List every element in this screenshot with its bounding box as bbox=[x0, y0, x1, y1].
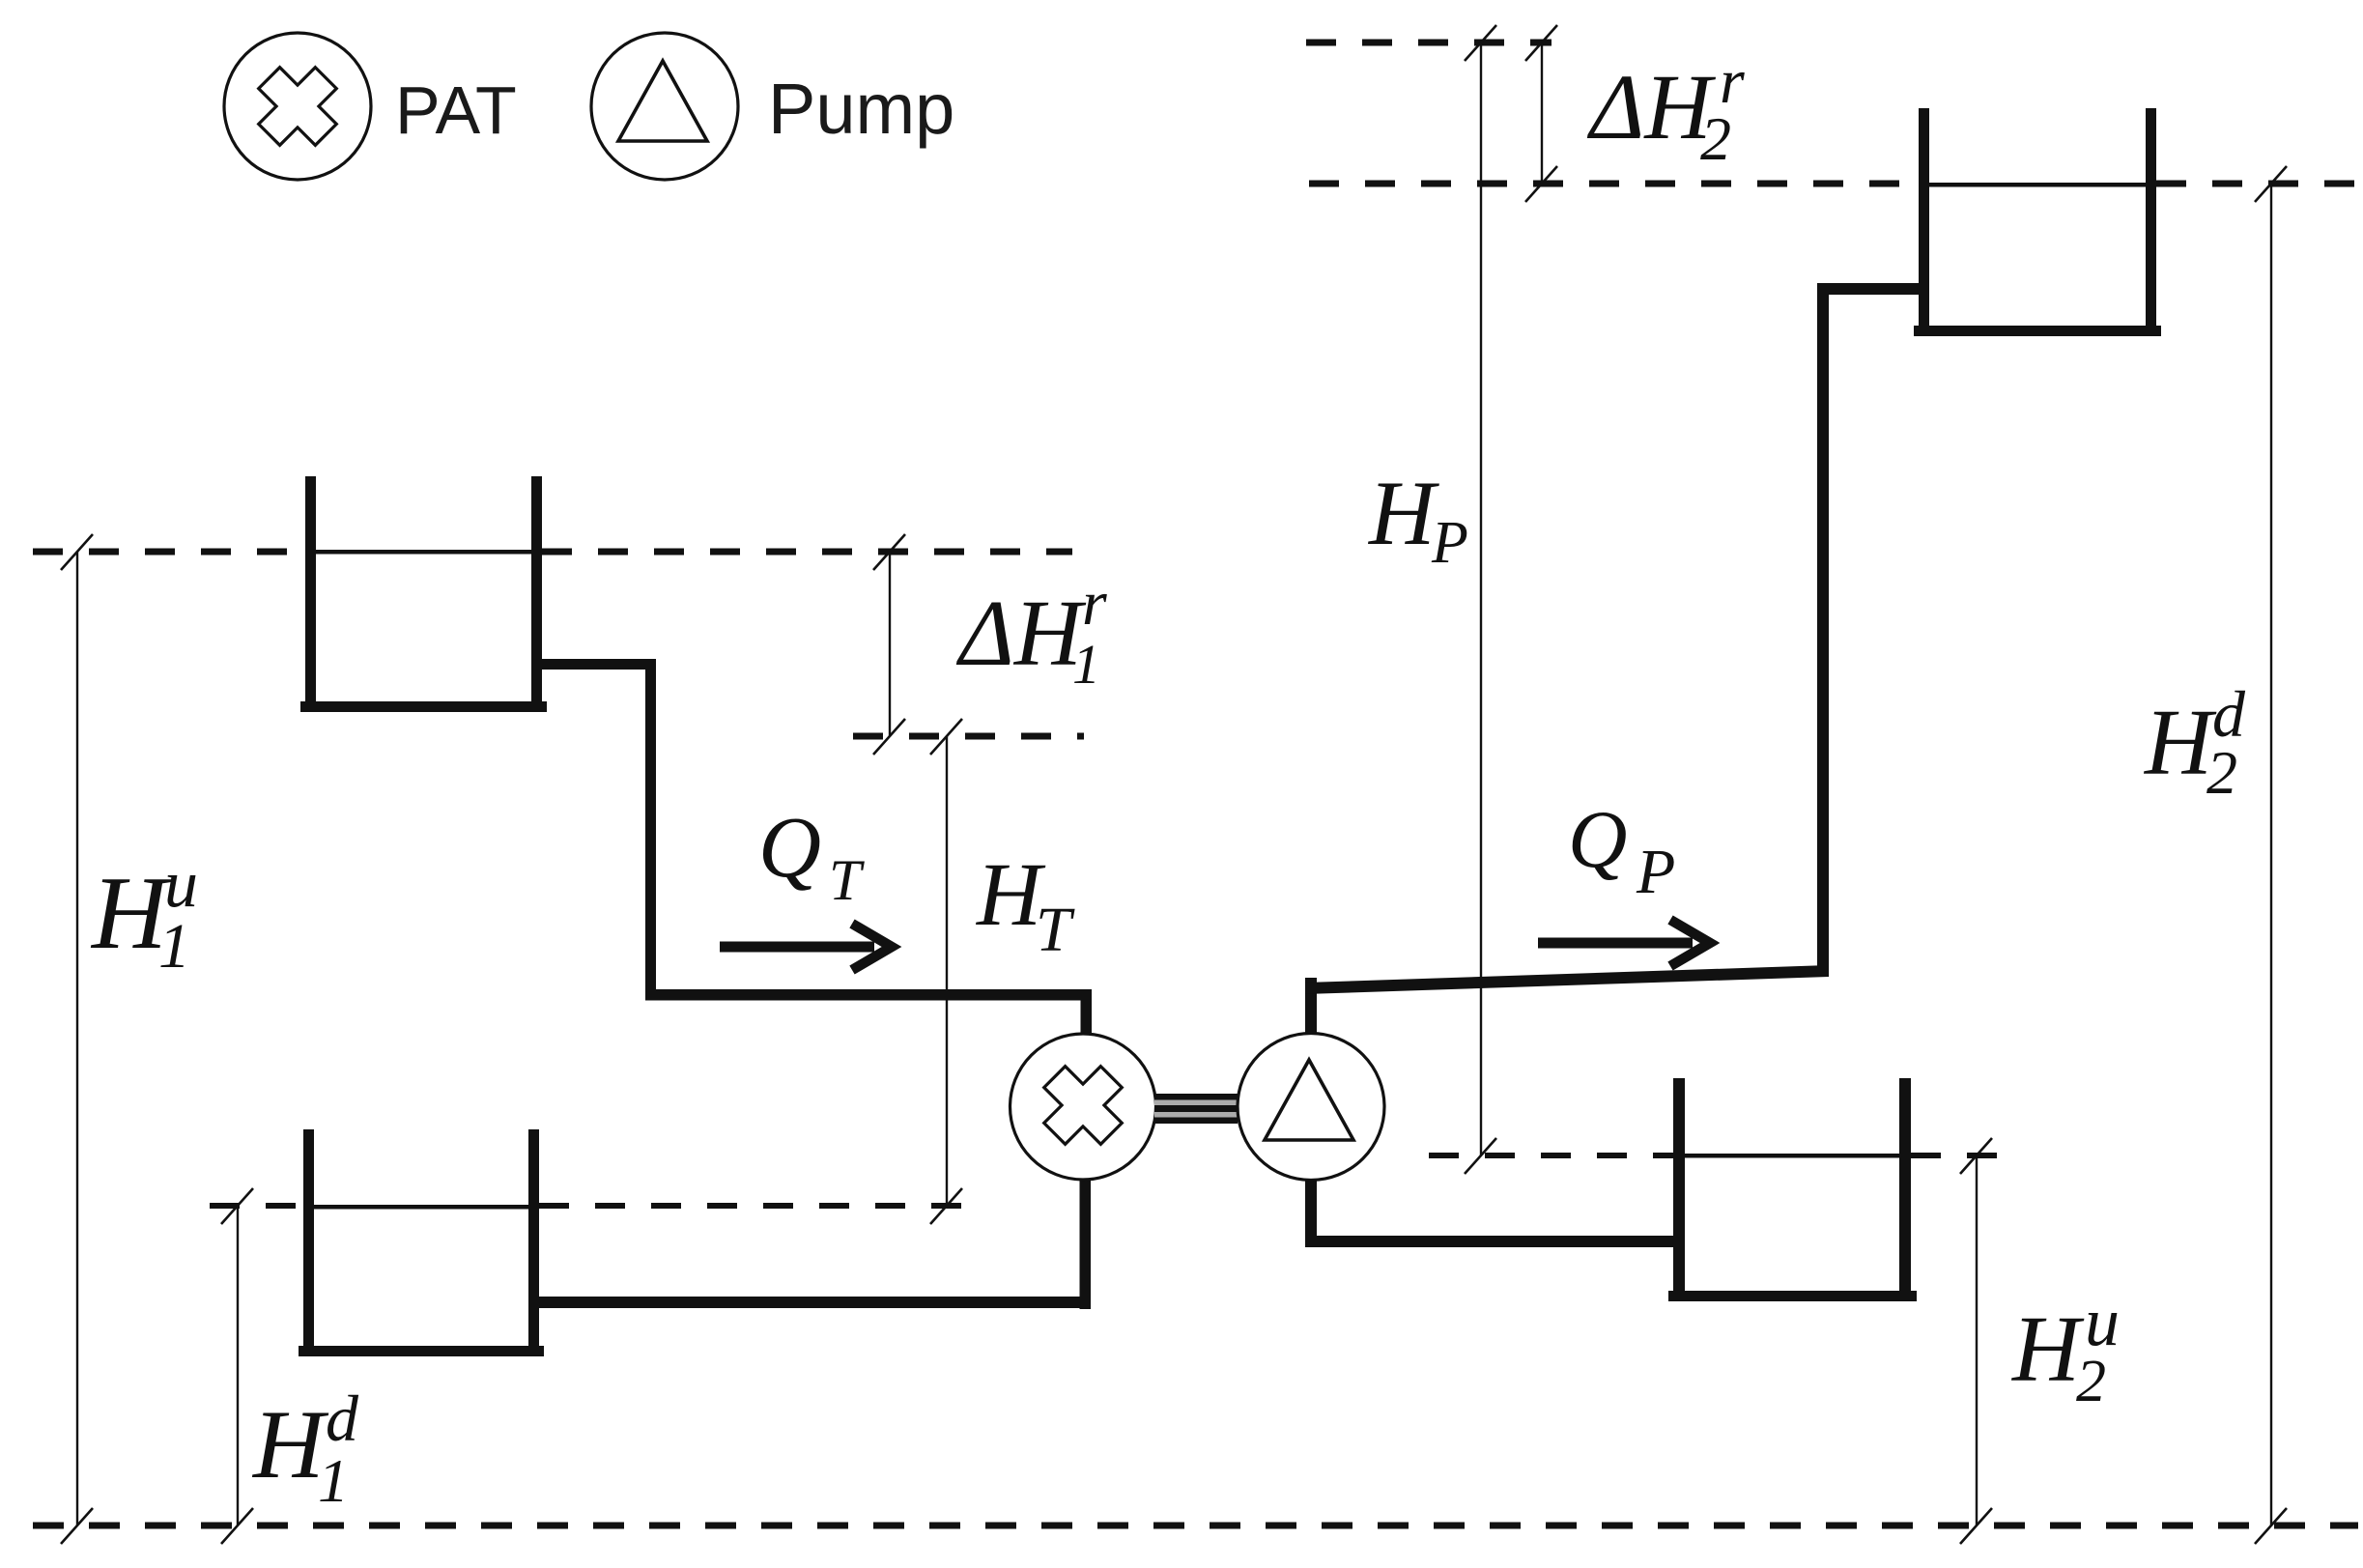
pipe out of pump bottom vertical bbox=[1305, 1180, 1317, 1247]
dashed water level line lower-right reservoir y=1196 (right part) bbox=[1911, 1153, 2014, 1158]
legend label Pump bbox=[768, 69, 954, 149]
reservoir tank upper-left right wall bbox=[531, 476, 542, 712]
legend label PAT bbox=[395, 72, 517, 148]
dashed water level line upper-right reservoir y=190 (right part) bbox=[2156, 181, 2358, 187]
svg-text:ΔH: ΔH bbox=[1586, 55, 1716, 158]
tick at dH1r bottom bbox=[873, 719, 905, 755]
reservoir tank lower-right water line bbox=[1685, 1154, 1899, 1158]
tick at H1d bottom datum bbox=[221, 1508, 253, 1544]
svg-text:r: r bbox=[1082, 568, 1107, 639]
tick at H1u top bbox=[61, 534, 93, 570]
reservoir tank upper-right left wall bbox=[1919, 108, 1929, 336]
dimension line H2d x=2351 bbox=[2270, 184, 2272, 1525]
reservoir tank upper-right water line bbox=[1929, 183, 2146, 187]
tick at H2d top bbox=[2255, 166, 2287, 202]
dimension line dH2r x=1596 bbox=[1541, 43, 1543, 184]
svg-text:H: H bbox=[2010, 1297, 2085, 1401]
legend PAT symbol circle bbox=[224, 33, 371, 180]
tick at HP bottom bbox=[1465, 1138, 1496, 1174]
shaft coupling line 3 bbox=[1154, 1118, 1238, 1125]
dashed water level line lower-left reservoir y=1248 (right part) bbox=[539, 1203, 975, 1209]
tick at HT bottom bbox=[930, 1188, 962, 1224]
shaft coupling line 1 bbox=[1154, 1094, 1238, 1100]
dimension line HP x=1533 bbox=[1480, 43, 1482, 1155]
svg-text:Q: Q bbox=[758, 800, 821, 896]
PAT turbine circle bbox=[1011, 1034, 1156, 1180]
label dH1r bbox=[955, 568, 1107, 696]
flow arrow QT head bbox=[852, 924, 892, 970]
dashed water level line lower-left reservoir y=1248 (left part) bbox=[210, 1203, 303, 1209]
tick at dH1r top bbox=[873, 534, 905, 570]
dashed maximum pump head level line y=44 bbox=[1306, 40, 1552, 46]
label HP bbox=[1367, 462, 1468, 576]
dashed water level line upper-left reservoir y=571 (left part) bbox=[33, 549, 305, 556]
tick at HP top bbox=[1465, 25, 1496, 61]
pump circle bbox=[1238, 1034, 1384, 1181]
reservoir tank upper-right right wall bbox=[2146, 108, 2156, 336]
label H2u bbox=[2010, 1283, 2120, 1414]
dimension line H2u x=2046 bbox=[1976, 1155, 1978, 1525]
svg-text:ΔH: ΔH bbox=[955, 582, 1087, 685]
shaft coupling line 2 bbox=[1154, 1105, 1238, 1112]
pipe stub into upper-right tank bbox=[1817, 283, 1929, 295]
tick at dH2r bottom bbox=[1525, 166, 1557, 202]
pipe to lower-right tank horizontal bbox=[1305, 1236, 1676, 1247]
pipe to PAT horizontal bbox=[645, 989, 1092, 1001]
svg-text:P: P bbox=[1431, 510, 1468, 576]
reservoir tank lower-right bottom bbox=[1668, 1291, 1917, 1301]
pump triangle bbox=[1265, 1060, 1353, 1140]
reservoir tank lower-right right wall bbox=[1899, 1078, 1911, 1301]
svg-text:Pump: Pump bbox=[768, 69, 954, 149]
label HT bbox=[976, 845, 1075, 965]
label QP bbox=[1568, 794, 1675, 907]
legend PAT cross bbox=[241, 49, 354, 162]
svg-text:T: T bbox=[1036, 895, 1075, 965]
label H1u bbox=[90, 847, 198, 982]
reservoir tank lower-left right wall bbox=[528, 1129, 539, 1356]
shaft coupling gap line 1 bbox=[1154, 1100, 1238, 1106]
legend Pump triangle bbox=[618, 61, 707, 141]
pipe rising main vertical bbox=[1817, 283, 1829, 977]
dimension line HT x=980 bbox=[946, 736, 948, 1206]
dashed water level line upper-left reservoir y=571 (right part) bbox=[542, 549, 1072, 556]
svg-text:PAT: PAT bbox=[395, 72, 517, 148]
tick at H1d top bbox=[221, 1188, 253, 1224]
reservoir tank upper-left bottom bbox=[300, 701, 547, 712]
dashed water level line lower-right reservoir y=1196 (left part) bbox=[1429, 1153, 1673, 1158]
pipe to lower-left tank horizontal bbox=[539, 1297, 1091, 1308]
reservoir tank upper-left water line bbox=[316, 550, 531, 555]
pipe down from upper-left tank vertical bbox=[645, 659, 656, 1000]
label QT bbox=[758, 800, 865, 912]
label H2d bbox=[2143, 677, 2246, 807]
flow arrow QP shaft bbox=[1538, 938, 1693, 949]
pipe from pump rising main sloped bbox=[1305, 965, 1829, 994]
pipe into pump top vertical bbox=[1305, 978, 1317, 1034]
reservoir tank lower-left left wall bbox=[303, 1129, 314, 1356]
tick at H2u top bbox=[1960, 1138, 1992, 1174]
dimension line H1u x=80 bbox=[76, 552, 78, 1525]
pipe from upper-left tank horizontal bbox=[539, 659, 656, 670]
reservoir tank upper-right bottom bbox=[1914, 326, 2161, 336]
tick at H1u bottom datum bbox=[61, 1508, 93, 1544]
svg-text:2: 2 bbox=[2076, 1349, 2106, 1414]
svg-text:Q: Q bbox=[1568, 794, 1627, 885]
reservoir tank lower-left water line bbox=[314, 1205, 528, 1210]
tick at HT top bbox=[930, 719, 962, 755]
dashed water level line upper-right reservoir y=190 (left part) bbox=[1309, 181, 1919, 187]
svg-text:2: 2 bbox=[1700, 104, 1731, 173]
dashed datum line y=1579 bbox=[33, 1523, 2358, 1529]
dimension line H1d x=246 bbox=[237, 1206, 239, 1525]
pipe out of PAT bottom vertical bbox=[1080, 1180, 1092, 1309]
dimension line dH1r x=921 bbox=[889, 552, 891, 736]
PAT turbine cross bbox=[1026, 1048, 1139, 1161]
tick at H2u bottom datum bbox=[1960, 1508, 1992, 1544]
svg-text:2: 2 bbox=[2206, 738, 2237, 807]
reservoir tank lower-left bottom bbox=[299, 1346, 544, 1356]
legend Pump symbol circle bbox=[591, 33, 738, 180]
svg-text:1: 1 bbox=[318, 1446, 349, 1515]
svg-text:T: T bbox=[829, 848, 865, 912]
flow arrow QT shaft bbox=[720, 942, 874, 953]
reservoir tank upper-left left wall bbox=[305, 476, 316, 712]
pipe into PAT top vertical bbox=[1081, 989, 1093, 1036]
svg-text:H: H bbox=[1367, 462, 1439, 564]
svg-text:1: 1 bbox=[158, 911, 190, 982]
label dH2r bbox=[1586, 46, 1745, 173]
reservoir tank lower-right left wall bbox=[1673, 1078, 1685, 1301]
svg-text:P: P bbox=[1636, 837, 1675, 907]
tick at dH2r top bbox=[1525, 25, 1557, 61]
label H1d bbox=[251, 1382, 359, 1515]
svg-text:1: 1 bbox=[1072, 633, 1100, 696]
tick at H2d bottom datum bbox=[2255, 1508, 2287, 1544]
svg-text:d: d bbox=[326, 1382, 359, 1455]
dashed turbine outlet level line y=762 bbox=[853, 733, 1084, 740]
shaft coupling gap line 2 bbox=[1154, 1112, 1238, 1118]
flow arrow QP head bbox=[1670, 920, 1710, 966]
